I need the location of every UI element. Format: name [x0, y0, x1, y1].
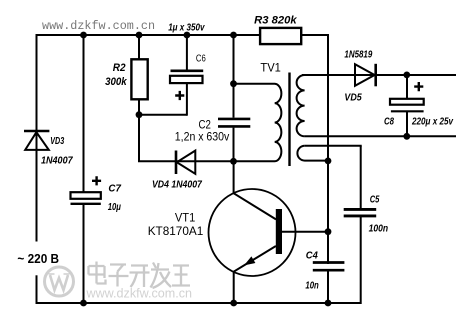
capacitor C2 — [218, 119, 250, 127]
svg-text:1μ x 350v: 1μ x 350v — [168, 21, 205, 33]
svg-text:C7: C7 — [108, 183, 122, 195]
junction VD5 cathode / C8 top node — [403, 72, 410, 79]
transformer core — [288, 73, 290, 167]
transformer TV1 secondary winding — [297, 75, 305, 136]
junction C8 bottom node — [403, 133, 410, 140]
transistor VT1 — [209, 161, 296, 303]
wire C7 branch upper — [83, 35, 85, 193]
svg-text:R2: R2 — [113, 62, 126, 74]
svg-text:1N4007: 1N4007 — [41, 155, 74, 167]
svg-text:www.dzkfw.com.cn: www.dzkfw.com.cn — [42, 19, 155, 33]
diode VD3 — [24, 131, 49, 150]
wire C8 column upper — [406, 75, 408, 100]
junction primary top node — [230, 80, 237, 87]
svg-text:220μ x 25v: 220μ x 25v — [411, 115, 454, 127]
svg-text:VD5: VD5 — [344, 92, 361, 104]
svg-text:C8: C8 — [384, 116, 394, 128]
wire C6 branch upper — [186, 35, 188, 70]
svg-text:C2: C2 — [199, 120, 211, 132]
transformer TV1 primary winding — [234, 84, 282, 161]
wire R3 right to collector column — [327, 34, 329, 303]
wire left rail upper — [36, 34, 38, 242]
junction R2 bottom / C6 node — [136, 111, 143, 118]
svg-text:VD3: VD3 — [50, 135, 64, 147]
junction top rail / C6 branch — [184, 32, 191, 39]
junction bottom rail / C7 branch — [80, 300, 87, 307]
diode VD4 — [176, 151, 195, 175]
wire C6 branch lower — [186, 83, 188, 116]
svg-text:www.dzkfw.com.cn: www.dzkfw.com.cn — [86, 286, 192, 301]
svg-text:VD4 1N4007: VD4 1N4007 — [152, 178, 203, 190]
wire R2-C6 link — [139, 114, 187, 116]
watermark logo circle — [45, 267, 74, 296]
capacitor C5 — [344, 209, 377, 216]
capacitor C7 — [71, 176, 102, 204]
junction C2 / VD4 / primary bottom / collector node — [230, 158, 237, 165]
resistor R2 — [131, 59, 147, 99]
svg-text:1,2n x 630v: 1,2n x 630v — [175, 132, 230, 144]
svg-text:100n: 100n — [369, 223, 389, 235]
wire C7 branch lower — [83, 204, 85, 303]
svg-text:C5: C5 — [370, 193, 380, 205]
wire C2 branch upper — [233, 35, 235, 118]
capacitor C4 — [313, 263, 345, 271]
junction feedback winding bottom node — [325, 158, 332, 165]
junction top rail / R2 branch — [136, 32, 143, 39]
svg-text:10n: 10n — [305, 280, 318, 292]
resistor R3 — [260, 28, 301, 44]
wire VD4 row — [138, 160, 234, 162]
capacitor C8 — [390, 82, 424, 111]
node: C4 gap cover (white) — [325, 264, 331, 269]
svg-text:VT1: VT1 — [175, 210, 196, 224]
capacitor C6 — [170, 71, 203, 100]
wire secondary bottom / C8 bottom row — [305, 135, 456, 137]
junction base node — [325, 228, 332, 235]
wire base lead — [282, 231, 328, 233]
svg-text:KT8170A1: KT8170A1 — [148, 224, 204, 238]
svg-text:TV1: TV1 — [260, 61, 281, 75]
svg-text:~ 220 B: ~ 220 B — [17, 252, 59, 266]
wire small winding top to C5 — [305, 145, 362, 147]
svg-text:R3 820k: R3 820k — [254, 14, 297, 26]
junction top rail / C2 branch — [230, 32, 237, 39]
junction bottom rail / emitter — [230, 300, 237, 307]
svg-text:C6: C6 — [196, 54, 206, 65]
wire C2 branch lower — [233, 128, 235, 162]
svg-text:300k: 300k — [105, 76, 127, 88]
svg-text:1N5819: 1N5819 — [344, 49, 372, 61]
junction bottom rail / C4 branch — [325, 300, 332, 307]
wire secondary top / VD5 row — [302, 74, 456, 76]
svg-text:C4: C4 — [306, 250, 318, 262]
transformer TV1 feedback winding — [297, 146, 328, 161]
watermark hanzi 电子开发王 — [89, 262, 191, 289]
wire C5 column upper — [360, 146, 362, 208]
junction top rail / C7 branch — [80, 32, 87, 39]
wire C5 column lower — [360, 217, 362, 304]
diode VD5 — [355, 64, 376, 87]
wire R2 branch — [138, 35, 140, 161]
wire bottom rail — [36, 302, 361, 304]
svg-text:10μ: 10μ — [108, 201, 122, 213]
wire left rail lower — [36, 275, 38, 304]
wire C8 column lower — [406, 112, 408, 137]
wire top rail — [37, 34, 329, 36]
